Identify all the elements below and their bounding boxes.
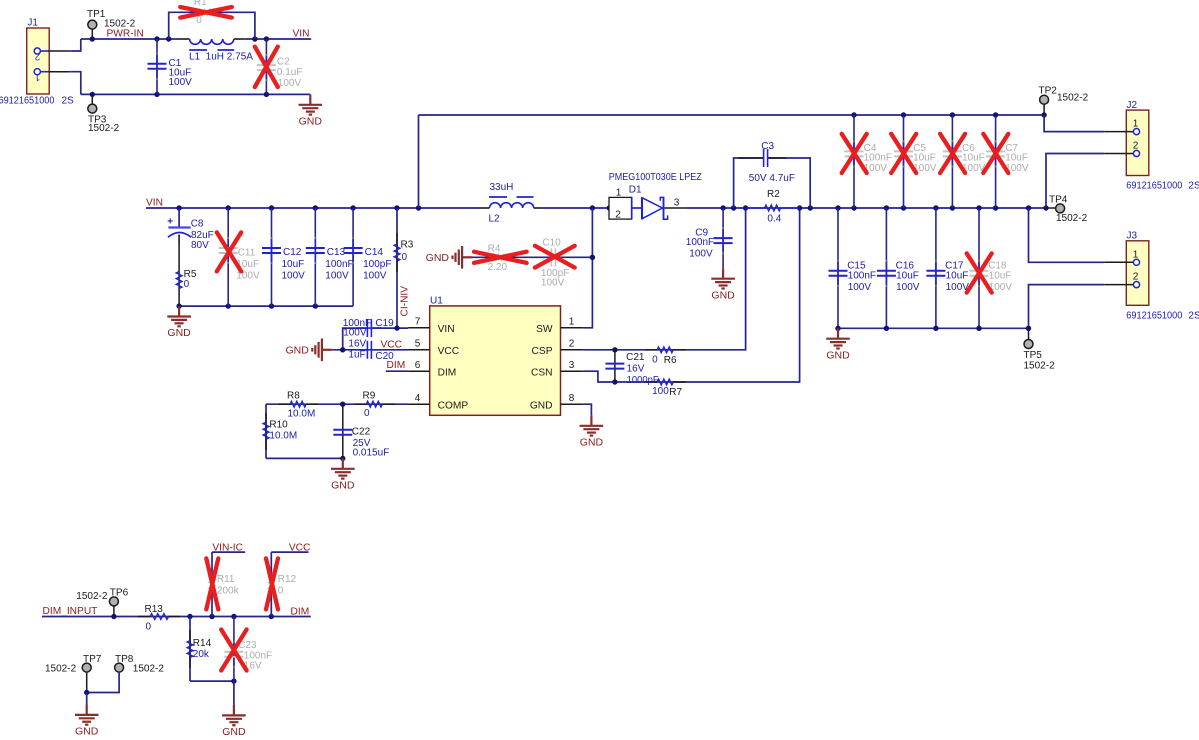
svg-text:GND: GND [580,436,604,448]
svg-text:C13: C13 [327,247,346,258]
capacitor C13 [306,208,354,306]
wire CSN net [583,208,800,385]
connector J3 [1104,231,1199,322]
svg-text:2: 2 [34,50,40,61]
svg-text:0: 0 [364,408,370,419]
wire J1.2 to rail [71,39,81,51]
resistor R13 [138,604,180,633]
resistor R12 (DNP, crossed out) [266,552,297,616]
svg-text:SW: SW [536,324,553,335]
svg-text:VIN: VIN [438,324,455,335]
svg-text:100V: 100V [896,282,920,293]
svg-text:R7: R7 [669,387,682,398]
svg-text:0: 0 [146,622,152,633]
svg-text:+: + [167,216,173,227]
svg-text:C14: C14 [365,247,384,258]
svg-text:1502-2: 1502-2 [45,664,77,675]
svg-text:100V: 100V [541,278,565,289]
svg-text:0: 0 [402,252,408,263]
svg-text:VIN: VIN [293,28,310,39]
svg-text:2S: 2S [62,96,75,107]
svg-text:TP4: TP4 [1049,194,1068,205]
svg-text:16V: 16V [627,363,645,374]
svg-text:R13: R13 [145,604,164,615]
wire comp bottom [266,456,345,461]
wire U1 GND pin to ground [583,404,592,415]
svg-text:100V: 100V [689,248,713,259]
svg-text:C21: C21 [626,352,645,363]
testpoint TP1 [87,9,136,39]
wire right bottom rail [835,326,1031,331]
resistor R11 (DNP, crossed out) [206,552,239,616]
svg-text:0: 0 [184,279,190,290]
capacitor C10 (DNP, crossed out) [535,237,575,288]
svg-text:10uF: 10uF [989,270,1012,281]
svg-text:100V: 100V [278,78,302,89]
capacitor C9 [686,208,733,268]
svg-text:100pF: 100pF [363,259,391,270]
svg-text:J2: J2 [1127,100,1138,111]
ground [711,268,735,301]
svg-text:1502-2: 1502-2 [1057,93,1089,104]
svg-text:1502-2: 1502-2 [76,591,108,602]
ground (left) [285,339,332,362]
svg-text:VCC: VCC [438,346,460,357]
ground [331,458,355,491]
svg-text:DIM_INPUT: DIM_INPUT [43,606,98,617]
svg-text:100V: 100V [343,328,367,339]
testpoint TP3 [88,94,120,134]
capacitor C6 (DNP, crossed out) [940,115,986,208]
wire PWR-IN rail [81,36,311,41]
svg-text:10uF: 10uF [896,270,919,281]
svg-text:5: 5 [415,339,421,350]
inductor L1 [180,39,253,63]
svg-text:R10: R10 [269,419,288,430]
resistor R7 [645,379,686,398]
svg-text:C19: C19 [375,318,394,329]
net label VIN-IC [212,542,245,553]
svg-text:0.4: 0.4 [767,214,781,225]
svg-text:200k: 200k [217,585,240,596]
svg-text:GND: GND [530,401,553,412]
capacitor C8 (electrolytic) [167,208,213,251]
capacitor C22 [333,404,389,458]
wire DIM net [42,614,311,619]
ground [826,328,850,361]
svg-text:1502-2: 1502-2 [1024,361,1056,372]
svg-text:L2: L2 [489,213,501,224]
svg-text:TP2: TP2 [1039,86,1058,97]
svg-text:16V: 16V [348,339,366,350]
wire output rail [685,205,1048,210]
svg-text:2: 2 [1133,272,1139,283]
inductor L2 [479,182,544,224]
testpoint TP2 [1039,86,1089,115]
svg-text:GND: GND [285,345,309,357]
svg-text:69121651000: 69121651000 [1126,311,1182,322]
wire SW to switch node [583,208,593,328]
svg-text:1000pF: 1000pF [627,375,659,386]
svg-text:TP6: TP6 [110,588,129,599]
svg-text:GND: GND [299,115,323,127]
svg-text:100nF: 100nF [325,259,353,270]
capacitor C4 (DNP, crossed out) [842,115,892,208]
capacitor C17 [926,208,969,328]
svg-text:R9: R9 [363,390,376,401]
svg-text:10.0M: 10.0M [269,430,297,441]
wire R14/C23 bottom [190,678,237,683]
diode D1 [609,172,702,221]
svg-text:7: 7 [415,317,421,328]
ground [222,705,246,738]
resistor R2 [746,189,800,225]
resistor R14 [187,617,211,682]
svg-text:R5: R5 [184,269,197,280]
svg-text:R11: R11 [217,574,235,585]
svg-text:CI-NIV: CI-NIV [400,286,411,317]
svg-text:69121651000: 69121651000 [0,96,55,107]
svg-text:R2: R2 [767,189,780,200]
svg-text:1: 1 [616,187,622,198]
svg-text:3: 3 [569,360,575,371]
svg-text:100V: 100V [848,282,872,293]
svg-text:DIM: DIM [291,606,310,617]
wire to J3 pin1 [1029,208,1105,262]
net label DIM [386,360,408,371]
resistor R6 [645,347,686,366]
wire to ground [233,681,235,705]
connector J2 [1104,100,1199,192]
svg-text:100V: 100V [169,77,193,88]
connector J1 [0,17,74,106]
svg-text:10.0M: 10.0M [288,409,316,420]
svg-text:20k: 20k [193,649,210,660]
svg-text:50V 4.7uF: 50V 4.7uF [749,173,795,184]
resistor R9 [343,390,408,419]
capacitor C15 [829,208,877,328]
svg-text:GND: GND [826,349,850,361]
svg-text:2: 2 [1133,141,1139,152]
wire cap bank bottom rail [176,303,353,308]
svg-text:C22: C22 [352,426,371,437]
testpoint TP8 [115,654,165,675]
svg-text:GND: GND [222,726,246,738]
svg-text:C10: C10 [542,237,561,248]
svg-text:R1: R1 [194,0,207,8]
capacitor C14 [344,208,392,306]
testpoint TP4 [1046,194,1088,224]
svg-text:L1 1uH 2.75A: L1 1uH 2.75A [189,52,253,63]
svg-text:J1: J1 [27,17,38,28]
svg-text:100V: 100V [363,270,387,281]
svg-text:DIM: DIM [438,368,457,379]
svg-text:C8: C8 [191,218,204,229]
wire CSP net [583,208,746,352]
capacitor C5 (DNP, crossed out) [891,115,937,208]
svg-text:100V: 100V [282,270,306,281]
capacitor C3 [734,141,811,208]
svg-text:1uF: 1uF [348,350,365,361]
svg-text:PMEG100T030E LPEZ: PMEG100T030E LPEZ [609,172,702,183]
wire J1.1 to bottom rail [71,72,81,95]
svg-text:33uH: 33uH [490,182,514,193]
svg-text:0: 0 [652,354,658,365]
svg-text:69121651000: 69121651000 [1126,180,1182,191]
svg-text:VIN: VIN [146,198,163,209]
svg-text:100V: 100V [325,270,349,281]
svg-text:100: 100 [652,386,669,397]
capacitor C23 (DNP, crossed out) [221,617,272,682]
capacitor C18 (DNP, crossed out) [967,208,1013,328]
testpoint TP7 [45,654,102,693]
capacitor C2 (DNP, crossed out) [255,39,303,94]
svg-text:CSN: CSN [531,368,553,379]
wire to J2 pin1 [1044,115,1104,132]
svg-text:2: 2 [569,339,575,350]
ground [580,415,604,448]
svg-text:0: 0 [278,585,284,596]
wire TP8 to TP7 gnd [84,672,119,705]
svg-text:TP7: TP7 [83,654,102,665]
svg-text:2S: 2S [1188,180,1199,191]
svg-text:GND: GND [711,289,735,301]
svg-text:U1: U1 [430,296,443,307]
resistor R3 [394,208,414,328]
svg-text:100nF: 100nF [686,237,714,248]
wire gnd rail [81,92,310,97]
resistor R4 (DNP, crossed out) [474,243,527,273]
svg-text:2.20: 2.20 [488,262,508,273]
svg-text:GND: GND [75,726,99,738]
ground [75,705,99,738]
IC U1 [408,296,583,416]
svg-text:TP5: TP5 [1024,350,1043,361]
capacitor C1 [148,39,193,94]
svg-text:R12: R12 [278,574,297,585]
svg-text:C12: C12 [283,247,302,258]
wire J2 pin2 to rail [1046,154,1104,209]
wire to top rail [418,115,420,208]
svg-text:DIM: DIM [387,360,406,371]
svg-text:R14: R14 [193,638,212,649]
svg-text:C2: C2 [277,57,290,68]
testpoint TP5 [1024,328,1056,371]
resistor R1 (DNP, crossed out) [169,0,255,39]
svg-text:3: 3 [674,198,680,209]
resistor R10 [263,404,297,458]
svg-text:1502-2: 1502-2 [1056,213,1088,224]
svg-text:PWR-IN: PWR-IN [107,28,144,39]
capacitor C12 [262,208,305,306]
ground [167,306,191,339]
svg-text:1: 1 [34,71,40,82]
svg-text:R6: R6 [664,355,677,366]
svg-text:R3: R3 [401,240,414,251]
resistor R5 [176,245,197,306]
svg-text:2S: 2S [1188,311,1199,322]
svg-text:0.1uF: 0.1uF [277,67,303,78]
svg-text:4: 4 [415,393,421,404]
wire VIN rail [146,205,612,210]
svg-text:8: 8 [569,393,575,404]
capacitor C11 (DNP, crossed out) [217,208,260,306]
svg-text:GND: GND [331,479,355,491]
svg-text:R8: R8 [287,390,300,401]
capacitor C7 (DNP, crossed out) [983,115,1029,208]
svg-text:C3: C3 [761,141,774,152]
svg-text:100nF: 100nF [848,270,876,281]
svg-text:10uF: 10uF [282,259,305,270]
svg-text:80V: 80V [191,240,209,251]
wire R4/C10 branch [473,255,596,260]
svg-text:TP8: TP8 [115,654,134,665]
net label VCC [271,542,310,553]
svg-text:0: 0 [196,15,202,26]
svg-text:J3: J3 [1127,231,1138,242]
svg-text:1: 1 [1133,119,1139,130]
resistor R8 [266,390,345,419]
svg-text:0.015uF: 0.015uF [353,448,390,459]
capacitor C20 [332,339,408,363]
svg-text:R4: R4 [488,243,501,254]
svg-text:TP1: TP1 [87,9,106,20]
svg-text:2: 2 [615,209,621,220]
svg-text:COMP: COMP [438,401,469,412]
svg-text:GND: GND [167,327,191,339]
capacitor C16 [877,208,920,328]
svg-text:D1: D1 [629,184,642,195]
svg-text:1: 1 [569,317,575,328]
svg-text:1502-2: 1502-2 [133,664,165,675]
svg-text:1: 1 [1133,249,1139,260]
wire J3 pin2 down [1029,285,1105,329]
svg-text:1502-2: 1502-2 [88,123,120,134]
svg-text:C11: C11 [238,247,256,258]
ground [299,94,323,127]
pin7 junction dot [394,325,399,330]
capacitor C19 [343,318,408,350]
svg-text:VCC: VCC [381,339,403,350]
wire top feedback rail [419,112,1047,117]
svg-text:CSP: CSP [532,346,553,357]
capacitor C21 [605,350,658,386]
testpoint TP6 [76,588,128,617]
svg-text:10uF: 10uF [946,270,969,281]
svg-text:6: 6 [415,360,421,371]
svg-text:GND: GND [426,252,450,264]
ground (left) for R4 branch [426,246,473,269]
